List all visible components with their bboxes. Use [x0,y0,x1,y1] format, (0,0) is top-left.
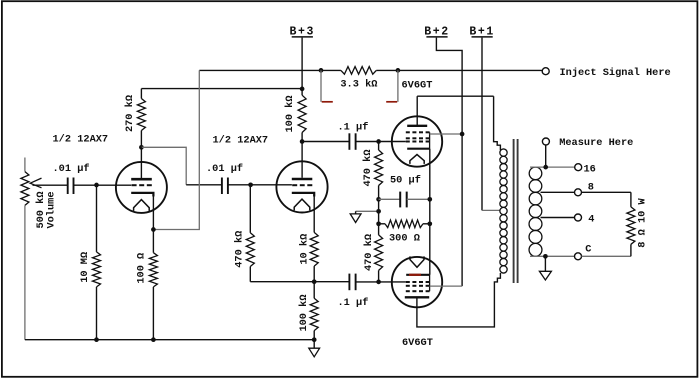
wire tapC [530,255,575,257]
junction plate V2 [300,139,305,144]
wire C1 to grid V1 [74,184,132,186]
junction C6 right [427,197,432,202]
resistor R10 470k upper grid leak [375,142,383,235]
label R12 value [389,232,420,244]
resistor R6 100k plate load [298,89,306,142]
resistor R9 100k tail [310,282,318,340]
wire cathodes bus [429,149,431,275]
svg-text:C: C [585,244,591,256]
svg-text:8 Ω 10 W: 8 Ω 10 W [637,197,649,247]
junction R2 ground [94,337,99,342]
pentode V4 plate [405,296,429,298]
terminal tap 4 [575,214,582,221]
resistor R11 470k lower grid leak [375,235,383,282]
resistor R13 load [627,192,635,256]
triode V1 heater [134,200,150,211]
label R13 value [637,197,649,247]
junction secondary ground [543,254,548,259]
svg-text:470 kΩ: 470 kΩ [362,149,374,186]
svg-text:470 kΩ: 470 kΩ [363,234,375,271]
triode V2 heater [294,199,310,210]
label R1 name [46,191,58,228]
pentode V3 heater [410,155,424,164]
triode V2 grid [292,184,312,186]
svg-text:1/2 12AX7: 1/2 12AX7 [213,134,269,146]
capacitor C4 .1uf upper [349,133,355,150]
junction R12 right [427,221,432,226]
wire C5 to grid V4 [356,281,406,283]
node B+1 label [469,25,495,38]
label R2 value [79,252,91,283]
pot wiper arrow [30,178,67,188]
pentode V3 screen [406,132,430,148]
wire R12 right lead [423,223,430,225]
junction cathode V1 [151,227,156,232]
wire plate V3 to OT [417,95,493,97]
transformer T1 core [514,139,518,283]
clip mark left [322,101,333,103]
junction screen V3 [460,132,465,137]
pentode V4 grid [406,281,430,283]
terminal Measure Here [542,138,549,145]
wire splitter node rail [250,281,349,283]
ground secondary [539,256,551,280]
triode V2 envelope [276,161,327,212]
svg-text:100 kΩ: 100 kΩ [284,95,296,132]
wire B+ rail [141,88,302,90]
wire C4 to grid V3 [356,141,406,143]
label tap C [585,244,591,256]
wire OT primary top lead [494,96,501,150]
pentode V3 envelope [392,116,442,166]
junction left of R7 [319,68,324,73]
node B+2 label [424,25,450,38]
resistor R7 3.3k [341,67,376,75]
clip mark right [386,101,397,103]
svg-text:10 MΩ: 10 MΩ [79,252,91,283]
wire B+3 vertical [301,38,303,89]
wire screen V3 to B+2 [430,133,463,135]
label R1 value [35,191,47,228]
svg-text:270 kΩ: 270 kΩ [124,95,136,132]
wire C2 to grid V2 [228,184,292,186]
wire inject rail right [376,69,542,71]
wire plate V4 to OT [417,273,501,327]
svg-text:Inject Signal Here: Inject Signal Here [560,67,671,79]
ground main [309,340,320,357]
resistor R8 10k cathode [310,197,318,282]
svg-text:.1 µf: .1 µf [338,297,369,309]
triode V2 cathode [292,193,314,197]
junction right of R7 [396,68,401,73]
triode V1 envelope [116,162,167,213]
label R5 value [234,231,246,268]
wire clip lead left [320,70,322,101]
label V2 type [213,134,269,146]
capacitor C2 .01uf [222,178,228,195]
wire bias ground tee [356,210,379,212]
label inject [560,67,671,79]
node B+3 label [290,25,316,38]
resistor R3 270k plate load [137,89,145,148]
svg-text:4: 4 [588,213,594,225]
pentode V3 grid [406,141,430,143]
resistor R12 300 [385,220,423,228]
terminal tap 16 [575,164,582,171]
wire C6 right lead [407,198,430,200]
wire inject rail left [199,69,341,71]
pentode V3 plate [407,96,427,126]
pentode V4 beam [406,285,430,287]
wire plate V2 to C4 [302,141,349,143]
triode V1 grid [132,184,152,186]
wire B+1 vertical [481,38,483,211]
label C6 value [390,175,421,187]
pentode V4 cathode [406,274,430,276]
wire R12 left lead [379,223,385,225]
wire plate V1 to C2 [141,147,222,185]
wire screen V4 to B+2 [430,285,463,287]
resistor R4 100 cathode [149,230,157,340]
label C2 value [206,163,243,175]
svg-text:10 kΩ: 10 kΩ [299,234,311,265]
junction C6 left [376,197,381,202]
wire ground rail [25,339,314,341]
svg-text:100 Ω: 100 Ω [136,253,148,284]
label R3 value [124,95,136,132]
potentiometer R1 500k volume [21,158,29,340]
wire tapC to load [582,255,631,257]
label R10 value [362,149,374,186]
junction plate V1 [139,145,144,150]
pentode V3 cathode [407,148,430,150]
svg-text:50 µf: 50 µf [390,175,421,187]
junction measure [543,165,548,170]
label C4 value [338,122,369,134]
label V3 type [402,79,433,91]
svg-text:16: 16 [584,164,596,176]
junction grid V4 [376,280,381,285]
svg-text:1/2 12AX7: 1/2 12AX7 [53,134,109,146]
terminal tap C [575,253,582,260]
junction grid V1 [94,183,99,188]
svg-text:6V6GT: 6V6GT [402,79,433,91]
wire B+2 to screens [436,38,462,287]
wire tap8 [541,191,575,193]
capacitor C1 .01uf [68,178,74,195]
wire tap16 [530,166,575,168]
wire feedback from inject rail [153,70,199,229]
label tap 8 [588,182,594,194]
terminal Inject Signal Here [542,68,549,75]
wire measure [545,145,547,167]
junction bias ground [376,209,381,214]
junction B+3 rail [300,87,305,92]
junction splitter node [312,279,317,284]
svg-text:.01 µf: .01 µf [53,163,90,175]
svg-text:100 kΩ: 100 kΩ [298,294,310,331]
junction R9 ground [312,337,317,342]
resistor R5 470k grid leak [246,185,254,282]
label V4 type [402,337,433,349]
wire B+1 to center tap [482,209,500,211]
wire tap8 to load [582,191,631,193]
pentode V4 envelope [392,257,442,307]
junction grid V2 [248,182,253,187]
svg-text:.01 µf: .01 µf [206,163,243,175]
label R8 value [299,234,311,265]
label R6 value [284,95,296,132]
wire tap4 [541,217,575,219]
svg-text:.1 µf: .1 µf [338,122,369,134]
label V1 type [53,134,109,146]
transformer T1 secondary upper [529,167,542,192]
pentode V4 screen [406,275,430,291]
label R4 value [136,253,148,284]
junction R12 left [376,221,381,226]
svg-text:470 kΩ: 470 kΩ [234,231,246,268]
resistor R2 10M [93,185,101,340]
pentode V3 beam [406,137,430,139]
terminal tap 8 [575,189,582,196]
triode V2 plate [292,142,313,180]
transformer T1 primary [500,149,507,273]
wire clip lead right [397,70,399,101]
label tap 4 [588,213,594,225]
triode V1 cathode [131,193,153,230]
label R9 value [298,294,310,331]
transformer T1 secondary lower [529,218,542,257]
junction R4 ground [151,337,156,342]
svg-text:Measure Here: Measure Here [559,137,633,149]
label R11 value [363,234,375,271]
triode V1 plate [131,147,152,179]
label C1 value [53,163,90,175]
svg-text:3.3 kΩ: 3.3 kΩ [340,79,377,91]
pentode V4 heater [410,256,424,267]
capacitor C5 .1uf lower [349,274,355,291]
label R7 value [340,79,377,91]
label measure [559,137,633,149]
svg-text:Volume: Volume [46,191,58,228]
wire C6 left lead [379,198,401,200]
transformer T1 secondary mid [529,192,542,217]
ground bias [350,211,361,222]
capacitor C6 50uf [400,192,407,208]
label tap 16 [584,164,596,176]
label C5 value [338,297,369,309]
junction grid V3 [376,139,381,144]
svg-text:6V6GT: 6V6GT [402,337,433,349]
svg-text:300 Ω: 300 Ω [389,232,420,244]
